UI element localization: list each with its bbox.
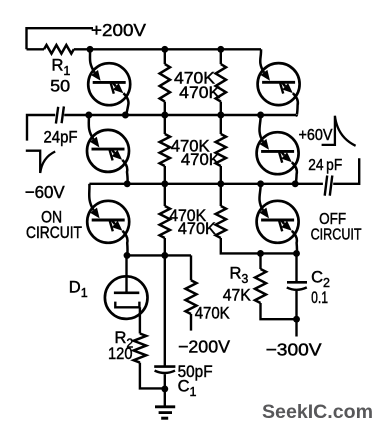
node row D / D1: [124, 252, 131, 259]
node row C / Q5 emitter: [292, 180, 299, 187]
wire rail 2 vertical: [220, 49, 222, 64]
wire row A: [74, 48, 261, 50]
ground: [155, 405, 175, 408]
svg-text:+60V: +60V: [299, 127, 333, 144]
node row C / Q2 emitter: [124, 180, 131, 187]
node row B / Q1 emitter: [122, 112, 129, 119]
wire to -200V: [190, 314, 192, 331]
wire +200V top stub: [27, 28, 94, 49]
wire rail 1 vertical: [164, 49, 166, 64]
output waveform (positive spike): [322, 116, 356, 146]
svg-text:47K: 47K: [223, 286, 251, 304]
svg-text:+200V: +200V: [91, 20, 146, 40]
resistor R3: [259, 253, 261, 269]
node C2 bottom: [293, 316, 300, 323]
capacitor C2: [295, 253, 297, 282]
wire row B: [64, 114, 296, 116]
wire row C: [89, 183, 323, 185]
wire R2 to C1 node: [140, 363, 165, 389]
svg-text:470K: 470K: [178, 220, 216, 238]
capacitor 24pF right plates: [325, 176, 328, 196]
transistor Q6: [257, 184, 299, 254]
wire R3 bottom: [261, 303, 297, 319]
node row B / rail2: [217, 112, 224, 119]
node row D / C2: [293, 250, 300, 257]
resistor 470K (2): [216, 64, 226, 102]
capacitor C1: [154, 365, 175, 368]
svg-text:OFF: OFF: [319, 211, 346, 228]
input waveform (negative spike): [26, 151, 55, 173]
resistor 470K (6): [216, 206, 226, 238]
transistor Q1: [88, 49, 130, 115]
wire row B input stub: [27, 115, 55, 141]
resistor 470K (7): [186, 280, 197, 314]
node row B / Q5 collector: [257, 112, 264, 119]
svg-text:CIRCUIT: CIRCUIT: [311, 227, 362, 244]
resistor 470K (1): [160, 64, 170, 102]
transistor Q2: [87, 115, 129, 184]
node row A / rail1: [161, 46, 168, 53]
svg-text:−200V: −200V: [178, 337, 230, 357]
node row C / rail1: [161, 180, 168, 187]
node row D / rail1: [161, 252, 168, 259]
diode D1: [125, 255, 127, 276]
svg-text:470K: 470K: [179, 83, 221, 102]
wire rail 2 to row D: [221, 238, 297, 253]
node row A / rail2: [217, 46, 224, 53]
svg-text:120: 120: [108, 345, 133, 363]
svg-text:50: 50: [50, 76, 70, 95]
svg-text:24 pF: 24 pF: [308, 157, 342, 174]
wire to 470K bottom: [190, 255, 192, 280]
resistor R2: [134, 334, 147, 363]
svg-text:CIRCUIT: CIRCUIT: [26, 224, 82, 242]
resistor R1: [44, 45, 74, 54]
svg-text:SeekIC.com: SeekIC.com: [262, 401, 373, 423]
svg-text:−60V: −60V: [25, 182, 65, 202]
svg-text:−300V: −300V: [266, 339, 322, 359]
transistor Q4: [258, 49, 300, 115]
node row C / Q6 collector: [257, 180, 264, 187]
wire row D left: [127, 254, 191, 256]
node row C / rail2: [217, 180, 224, 187]
svg-text:470K: 470K: [195, 304, 230, 322]
node row B / Q2 collector: [85, 112, 92, 119]
wire row A left: [27, 48, 45, 50]
svg-text:24pF: 24pF: [44, 129, 78, 147]
svg-text:470K: 470K: [181, 150, 221, 169]
transistor Q5: [257, 115, 299, 184]
wire D1 cathode to R2: [139, 307, 141, 333]
transistor Q3: [87, 184, 129, 256]
node row D / R3: [257, 250, 264, 257]
resistor 470K (4): [216, 134, 226, 166]
resistor 470K (3): [160, 134, 170, 166]
wire to -300V: [295, 319, 297, 336]
node C1 / R2: [161, 385, 168, 392]
wire row C to output stub: [333, 158, 359, 184]
capacitor 24pF left plates: [56, 107, 58, 124]
node row A / R1: [87, 46, 94, 53]
svg-text:0.1: 0.1: [311, 289, 328, 307]
resistor 470K (5): [160, 206, 170, 238]
node row B / rail1: [161, 112, 168, 119]
